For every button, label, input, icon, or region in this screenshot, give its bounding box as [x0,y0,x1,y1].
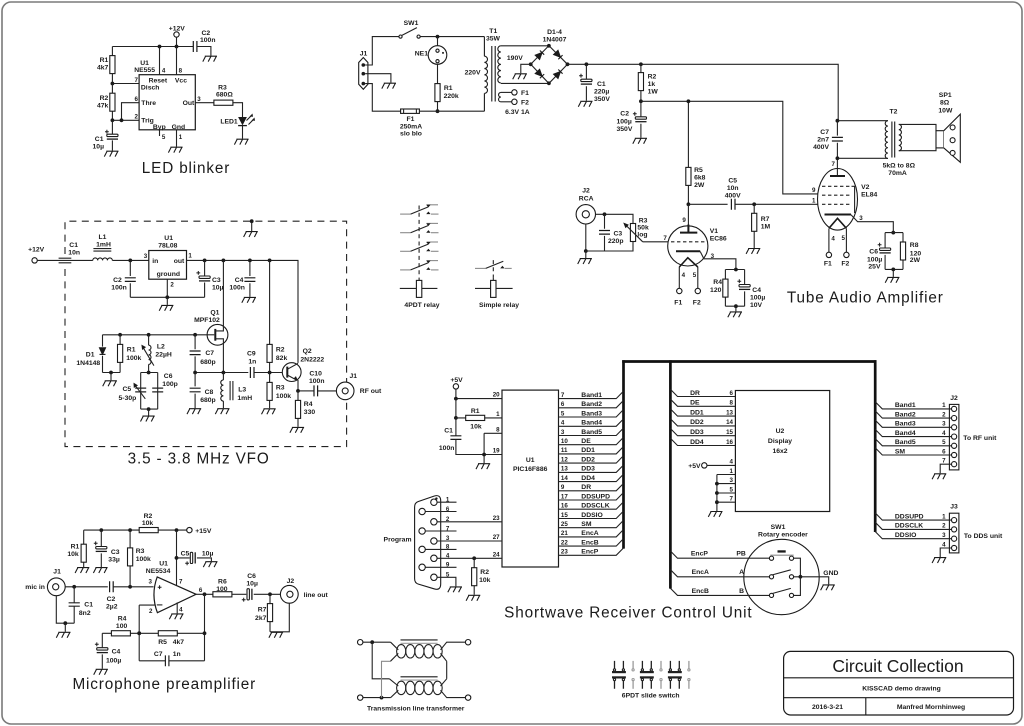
wire net EncP to PB [670,551,769,559]
wire top rail [112,46,193,48]
wire J2 pin 7 to ground [940,458,951,474]
svg-text:R5: R5 [694,167,703,174]
svg-text:Simple relay: Simple relay [479,302,519,309]
ground [382,83,396,88]
svg-text:1: 1 [446,496,450,503]
svg-text:J2: J2 [287,578,295,585]
J1 pin 2 wire to pin 23 [431,515,502,525]
wire J1 bottom pin to fuse rail [365,84,401,112]
svg-text:Band1: Band1 [581,392,602,399]
svg-text:Program: Program [384,536,412,543]
svg-text:16x2: 16x2 [772,448,787,455]
wire primary bottom [837,157,888,159]
resistor R6 100 [213,578,232,597]
svg-text:DD1: DD1 [690,409,704,416]
node F1 terminal [512,90,529,97]
tube V2 grid g1 dashed [822,203,852,205]
ground [75,568,89,573]
svg-text:4: 4 [446,553,450,560]
node F2 terminal V1 [693,288,701,306]
svg-text:EncA: EncA [692,569,709,576]
pin 5 Byp stub [160,130,166,141]
svg-text:35W: 35W [486,36,501,43]
svg-text:C2: C2 [107,596,116,603]
svg-text:7: 7 [663,235,667,242]
svg-text:1mH: 1mH [237,395,252,402]
wire C6 to J2 [254,593,281,595]
svg-text:220p: 220p [608,238,624,245]
svg-text:15: 15 [726,429,733,436]
ground [103,381,117,386]
svg-text:100n: 100n [111,285,127,292]
svg-text:7: 7 [730,496,734,503]
svg-text:6: 6 [561,401,565,408]
ground [269,632,283,637]
junction [639,62,643,66]
junction [734,304,738,308]
connector J1 mains inlet [359,51,368,90]
svg-text:22µH: 22µH [155,351,171,358]
pin 5 lead V2 [842,229,847,253]
capacitor C7 1n [139,651,204,666]
svg-text:100n: 100n [309,378,325,385]
junction [891,231,895,235]
svg-text:PB: PB [736,551,746,558]
J3 pin 1 circle [952,518,957,523]
svg-text:Trig: Trig [141,118,153,125]
wire input [65,586,108,588]
wire out rail [187,260,299,363]
ground [215,409,229,414]
resistor R7 1M [752,204,771,248]
junction [193,333,197,337]
wire screen node to V2 pin 9 [641,101,818,194]
svg-text:SP1: SP1 [939,92,952,99]
wire net DD3 pin 13 [559,465,624,473]
capacitor C3 10u [196,260,223,297]
wire A to common and GND [794,577,829,585]
svg-text:220µ: 220µ [594,89,609,96]
ground [708,512,722,517]
svg-text:47k: 47k [97,102,109,109]
svg-text:DDSCLK: DDSCLK [581,503,609,510]
svg-text:1: 1 [730,468,734,475]
svg-text:8: 8 [446,544,450,551]
tube V2 heater [829,218,847,228]
svg-text:R1: R1 [444,85,453,92]
wire gnd stem [64,623,66,632]
wire pin 8 [484,432,502,434]
svg-text:EncP: EncP [581,549,598,556]
wire fuse to transformer [419,110,484,112]
svg-text:EncB: EncB [692,588,709,595]
node F2 terminal [512,99,529,106]
capacitor C2 2u2 [106,581,118,610]
svg-text:3: 3 [942,421,946,428]
capacitor C7 680p [190,335,216,373]
svg-text:R1: R1 [127,347,136,354]
svg-text:3: 3 [149,579,153,586]
capacitor C5 10u [177,550,214,565]
pin 8 stub [177,47,183,75]
ground [466,595,480,600]
svg-text:C1: C1 [597,81,606,88]
wire to ground [892,269,894,277]
svg-text:7: 7 [446,525,450,532]
junction [203,259,207,263]
speaker SP1 [936,92,960,163]
svg-text:100: 100 [216,586,228,593]
svg-text:Manfred Mornhinweg: Manfred Mornhinweg [897,704,965,711]
wire net SM pin 25 [559,521,624,529]
ground [932,558,946,563]
svg-text:U1: U1 [526,457,535,464]
shield box dashed [65,221,347,446]
wire D1-R1 bottom [103,372,121,374]
wire secondary top to speaker [899,124,936,130]
svg-text:8Ω: 8Ω [940,100,950,107]
junction [268,592,272,596]
svg-text:100k: 100k [276,393,291,400]
svg-text:C5: C5 [181,550,190,557]
svg-text:log: log [637,231,647,238]
tube V2 grid g3 dashed [822,185,852,187]
connector J2 line out [280,578,328,603]
svg-text:C7: C7 [820,129,829,136]
junction [118,333,122,337]
node F1 terminal V1 [674,288,682,306]
resistor R1 10k [456,408,502,431]
wire cross link left black [372,642,389,679]
svg-text:4: 4 [162,68,166,75]
svg-text:U1: U1 [159,560,168,567]
svg-text:Disch: Disch [141,85,160,92]
junction [891,268,895,272]
capacitor C5 5-30p variable [119,383,147,402]
wire J2 to R3 top [596,214,634,223]
wire cathode rails V1 [725,270,744,307]
svg-text:23: 23 [493,515,500,522]
junction [454,397,458,401]
svg-text:4PDT relay: 4PDT relay [404,302,439,309]
junction [222,259,226,263]
wire net Band5 pin 3 [559,428,624,436]
J1 pin 8 [419,544,457,553]
wire J2 gnd stem [585,251,587,258]
svg-text:2016-3-21: 2016-3-21 [812,704,843,711]
junction [715,500,719,504]
wire net DD4 display pin 16 [670,438,735,446]
relay 4PDT pole 2 [400,223,438,232]
J2 pin 1 circle [952,406,957,411]
svg-text:100µ: 100µ [867,256,882,263]
svg-text:C1: C1 [84,602,93,609]
transformer T winding upper [390,642,465,661]
svg-text:C6: C6 [869,248,878,255]
node +15V terminal [187,527,212,535]
svg-text:4k7: 4k7 [97,65,109,72]
svg-text:+12V: +12V [28,246,45,253]
ground [93,568,107,573]
slide switch section 2 spare throw [660,661,662,689]
svg-text:14: 14 [561,475,568,482]
svg-text:R3: R3 [639,217,648,224]
svg-text:C4: C4 [235,277,244,284]
ground [476,464,490,469]
wire C2 to ground [197,47,211,56]
resistor R3 100k [128,530,152,587]
svg-text:100n: 100n [439,445,455,452]
tube V2 cathode [825,214,852,216]
svg-text:9: 9 [446,562,450,569]
wire net EncB pin 22 [559,539,624,547]
relay 4PDT pole 4 [400,261,438,270]
svg-text:6.3V 1A: 6.3V 1A [505,109,530,116]
svg-text:DD3: DD3 [581,466,595,473]
svg-text:3: 3 [144,253,148,260]
svg-text:DE: DE [581,438,591,445]
svg-text:50k: 50k [637,224,649,231]
bus drop 1 [622,360,625,548]
svg-text:100p: 100p [162,381,178,388]
wire net Band2 to J2 pin 2 [875,411,951,419]
svg-text:220V: 220V [465,70,481,77]
svg-text:5-30p: 5-30p [119,395,137,402]
svg-text:4: 4 [682,272,686,279]
junction [120,118,124,122]
svg-text:DDSUPD: DDSUPD [895,513,924,520]
svg-text:21: 21 [561,530,568,537]
slide switch section 1 [612,661,626,689]
wire cross link left gray [382,661,391,697]
svg-text:F1: F1 [521,90,529,97]
svg-text:100n: 100n [200,37,216,44]
wire net Band5 to J2 pin 5 [875,439,951,447]
svg-text:U1: U1 [140,60,149,67]
svg-text:350V: 350V [594,96,610,103]
wire Out [195,102,214,104]
svg-text:MPF102: MPF102 [194,317,220,324]
svg-text:10n: 10n [727,185,739,192]
svg-text:1: 1 [942,513,946,520]
resistor R5 4k7 [158,631,184,646]
potentiometer R3 50k log [623,217,649,242]
svg-text:27: 27 [493,534,500,541]
ground [728,312,742,317]
wire +12V stem [176,37,178,46]
ground [168,147,182,152]
slide switch section 1 spare throw [632,661,634,689]
relay simple coil [475,278,519,309]
svg-text:Band2: Band2 [895,411,916,418]
svg-text:5: 5 [162,134,166,141]
wire display gnd column [716,475,718,512]
node terminal top-left [358,640,363,645]
tube V1 heater [679,258,698,267]
junction [193,371,197,375]
svg-text:DE: DE [690,400,700,407]
junction [175,556,179,560]
transformer T core upper [401,640,438,643]
svg-text:C1: C1 [444,427,453,434]
resistor R2 47k [97,84,115,121]
transformer T1 core [492,46,495,102]
wire R3 to LED [233,103,243,117]
svg-text:10µ: 10µ [202,550,214,557]
wire inverting input [139,605,154,661]
svg-text:7: 7 [832,161,836,168]
wire anode node to C5 [688,203,727,205]
svg-text:Band5: Band5 [581,429,602,436]
capacitor C1 10n feedthrough [59,242,80,263]
pin 4 lead V2 [829,229,836,253]
wire bottom return [586,242,633,251]
svg-text:SM: SM [581,521,592,528]
relay 4PDT pole 3 [400,242,438,251]
wire gate rail [103,334,208,336]
svg-text:DD1: DD1 [581,447,595,454]
svg-text:Circuit Collection: Circuit Collection [832,656,963,676]
svg-text:V2: V2 [861,184,870,191]
svg-text:C9: C9 [247,350,256,357]
inductor L1 1mH [93,234,113,260]
junction bridge top [547,44,551,48]
svg-text:6: 6 [199,587,203,594]
svg-text:T2: T2 [890,109,898,116]
svg-text:PIC16F886: PIC16F886 [513,466,548,473]
wire gnd stem [110,373,112,381]
svg-text:10k: 10k [142,520,154,527]
J3 pin 2 circle [952,527,957,532]
junction [639,99,643,103]
op IC U1 NE555 box [134,60,195,131]
svg-text:R2: R2 [648,74,657,81]
svg-text:F2: F2 [693,299,701,306]
junction [268,259,272,263]
svg-text:U1: U1 [164,235,173,242]
wire top-left [363,641,391,643]
wire cathode node rails [885,233,903,270]
junction [128,585,132,589]
svg-text:20: 20 [493,392,500,399]
svg-text:4: 4 [561,420,565,427]
junction [248,259,252,263]
J2 pin 4 circle [952,434,957,439]
svg-text:4: 4 [942,430,946,437]
J2 pin 6 circle [952,452,957,457]
capacitor C1 10u polarized [93,120,118,151]
resistor R1 220k [435,64,459,111]
bus drop 3 [874,360,877,532]
svg-text:C1: C1 [95,136,104,143]
svg-text:R1: R1 [71,544,80,551]
capacitor C6 10u [242,573,258,602]
ground [234,139,248,144]
svg-text:+5V: +5V [450,377,463,384]
tube V1 anode [680,225,697,233]
resistor R4 330 [295,391,315,427]
resistor R2 82k [267,260,287,372]
junction [128,259,132,263]
svg-text:9: 9 [812,187,816,194]
ground [633,138,647,143]
wire pin2 Trig [112,119,139,121]
wire J3 pin 4 to ground [940,541,951,557]
svg-text:ground: ground [157,271,180,278]
pin 4 lead [679,267,685,289]
svg-text:1W: 1W [648,88,659,95]
svg-text:78L08: 78L08 [158,243,177,250]
junction [109,371,113,375]
wire net Band1 pin 7 [559,391,624,399]
J2 pin 5 circle [952,443,957,448]
svg-text:2N2222: 2N2222 [300,357,324,364]
svg-text:6k8: 6k8 [694,175,706,182]
junction [799,575,803,579]
wire pin 19 [484,433,502,463]
connector J1 mic in [25,568,65,595]
transformer T1 secondary 190V [498,46,523,83]
svg-text:V1: V1 [710,228,719,235]
svg-text:DD2: DD2 [690,419,704,426]
wire R7 to J2 shell gnd [270,603,289,632]
svg-text:3: 3 [711,253,715,260]
connector J1 RF out [336,373,382,400]
wire net EncB to B contact [670,588,769,596]
svg-text:10V: 10V [750,302,763,309]
ground [578,101,592,106]
svg-text:100µ: 100µ [106,657,121,664]
svg-text:L2: L2 [157,344,165,351]
svg-text:10: 10 [561,438,568,445]
junction [603,212,607,216]
svg-text:1M: 1M [761,224,771,231]
node terminal bottom-left [358,695,363,700]
svg-text:2µ2: 2µ2 [106,603,118,610]
tube V2 EL84 envelope [818,169,878,231]
svg-text:Microphone preamplifier: Microphone preamplifier [72,676,256,693]
junction [158,45,162,49]
svg-text:8: 8 [496,427,500,434]
connector J2 to RF unit [949,395,997,470]
wire net DD1 pin 11 [559,447,624,455]
node +5V terminal [450,377,463,389]
svg-text:C8: C8 [205,389,214,396]
junction [268,371,272,375]
svg-text:2W: 2W [910,257,921,264]
ground on shield top [244,219,258,237]
svg-text:10k: 10k [67,551,79,558]
wire input [37,259,93,261]
svg-text:EC86: EC86 [710,236,727,243]
ground [885,277,899,282]
svg-text:DD4: DD4 [581,475,595,482]
svg-text:100n: 100n [229,285,245,292]
diode D1 top-left [535,51,544,60]
tube V1 EC86 envelope [668,226,727,266]
wire 190V top to bridge [501,45,549,47]
wire net DE pin 10 [559,438,624,446]
svg-text:6PDT slide switch: 6PDT slide switch [622,692,680,699]
svg-text:LED1: LED1 [220,118,238,125]
encoder switch A [769,570,793,579]
svg-text:5: 5 [730,486,734,493]
svg-text:680Ω: 680Ω [216,91,233,98]
svg-text:R4: R4 [118,615,127,622]
wire net Band3 to J2 pin 3 [875,420,951,428]
svg-text:1: 1 [812,198,816,205]
diode D1 1N4148 [76,335,105,373]
